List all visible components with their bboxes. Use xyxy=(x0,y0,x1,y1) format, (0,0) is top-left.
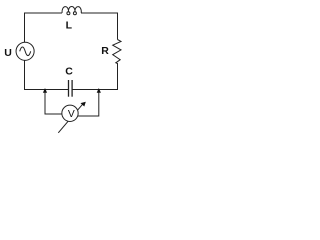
svg-text:L: L xyxy=(66,20,73,32)
svg-text:U: U xyxy=(4,47,12,59)
svg-text:R: R xyxy=(101,45,109,57)
svg-text:V: V xyxy=(68,109,75,120)
svg-text:C: C xyxy=(65,66,73,78)
